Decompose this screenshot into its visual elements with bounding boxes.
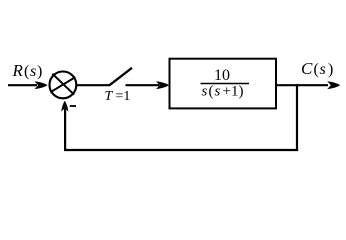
fraction bar xyxy=(201,83,250,85)
block G(s) xyxy=(170,59,277,109)
arrowhead into block xyxy=(156,81,169,89)
summing junction cross line 1 xyxy=(52,74,74,95)
svg-text:C: C xyxy=(301,59,313,78)
svg-text:R: R xyxy=(12,61,24,80)
svg-text:T: T xyxy=(105,89,114,104)
arrowhead into summing junction xyxy=(35,81,48,89)
svg-text:+1): +1) xyxy=(223,84,244,100)
wire from summer to sampler xyxy=(76,84,110,86)
svg-text:10: 10 xyxy=(214,67,230,84)
svg-text:s: s xyxy=(320,61,326,78)
svg-text:=1: =1 xyxy=(116,89,131,104)
wire input R(s) xyxy=(8,84,37,86)
wire feedback bottom horizontal xyxy=(64,149,298,151)
wire feedback vertical left xyxy=(64,106,66,151)
svg-text:(: ( xyxy=(209,84,214,100)
svg-text:): ) xyxy=(328,61,333,78)
arrowhead into summer from below xyxy=(61,101,68,112)
wire output from block xyxy=(276,84,328,86)
svg-text:s: s xyxy=(30,63,36,80)
wire from sampler to block xyxy=(126,84,160,86)
svg-text:s: s xyxy=(202,84,208,100)
wire feedback vertical right xyxy=(296,84,298,151)
summing junction (comparator) xyxy=(50,72,77,99)
svg-text:(: ( xyxy=(24,63,29,80)
svg-text:): ) xyxy=(37,63,42,80)
block value denominator s(s+1) xyxy=(202,84,244,100)
sampler switch arm xyxy=(110,68,133,85)
svg-text:(: ( xyxy=(314,61,319,78)
svg-text:s: s xyxy=(215,84,221,100)
arrowhead output C(s) xyxy=(327,81,340,89)
summing junction cross line 2 xyxy=(50,77,75,92)
minus sign at feedback input xyxy=(70,105,76,107)
